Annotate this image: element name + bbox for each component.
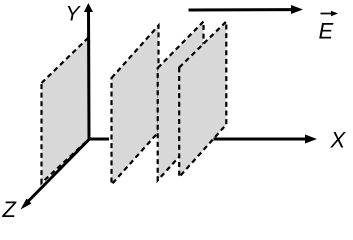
- Y axis: [84, 3, 93, 139]
- X axis main segment: [214, 135, 318, 144]
- plate P1 (on YZ plane at origin): [42, 37, 90, 183]
- Z axis: [21, 139, 90, 210]
- plate P3: [158, 22, 204, 181]
- svg-text:X: X: [330, 128, 347, 153]
- vector arrow over E: [321, 11, 339, 17]
- X axis segment at origin: [90, 138, 110, 141]
- plate P4: [179, 22, 226, 178]
- plate P2: [112, 26, 159, 185]
- svg-text:Z: Z: [2, 197, 18, 222]
- svg-text:E: E: [319, 19, 334, 44]
- svg-text:Y: Y: [66, 3, 82, 26]
- E field arrow: [189, 5, 304, 14]
